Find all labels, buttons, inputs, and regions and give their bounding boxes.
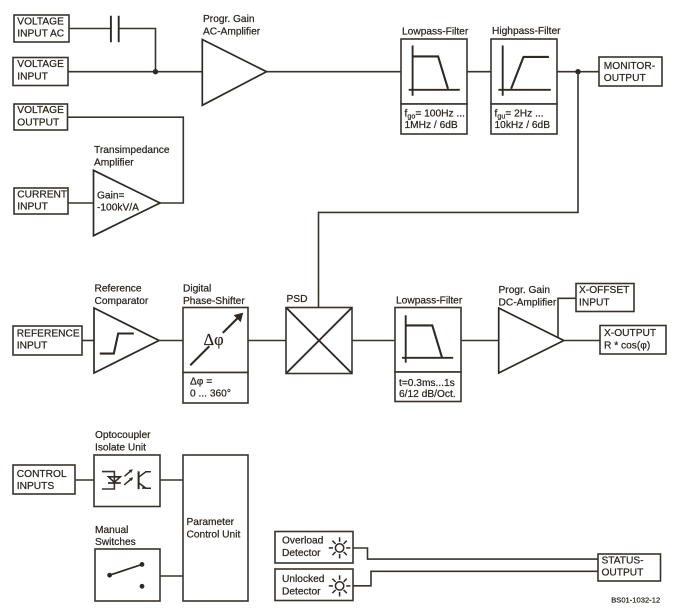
label Transimpedance Amplifier	[94, 145, 170, 169]
comparator step glyph	[100, 334, 134, 354]
wire DC amplifier to X-OUTPUT	[564, 340, 600, 342]
svg-text:t=0.3ms...1s: t=0.3ms...1s	[399, 378, 455, 389]
block lowpass filter 2	[395, 308, 461, 373]
svg-text:Reference: Reference	[95, 284, 142, 295]
wire comparator to phase shifter	[159, 340, 183, 342]
svg-text:Detector: Detector	[282, 548, 321, 559]
svg-text:MONITOR-: MONITOR-	[604, 61, 655, 72]
box CONTROL INPUTS	[13, 465, 75, 494]
svg-text:REFERENCE: REFERENCE	[17, 328, 80, 339]
svg-text:Digital: Digital	[183, 284, 211, 295]
value box phase 0...360	[183, 373, 248, 404]
wire X-OFFSET INPUT into DC amplifier	[558, 298, 576, 337]
svg-text:DC-Amplifier: DC-Amplifier	[499, 298, 557, 309]
box VOLTAGE OUTPUT	[14, 104, 68, 130]
wire highpass to monitor output	[557, 71, 599, 73]
svg-text:Transimpedance: Transimpedance	[94, 145, 170, 156]
box Unlocked Detector with lamp	[275, 569, 353, 601]
svg-text:Progr. Gain: Progr. Gain	[499, 285, 551, 296]
svg-text:Amplifier: Amplifier	[94, 157, 134, 168]
wire from capacitor down to voltage-input node	[119, 29, 156, 72]
svg-text:INPUT: INPUT	[17, 71, 48, 82]
label Progr. Gain DC-Amplifier	[499, 285, 557, 309]
svg-text:BS01-1032-12: BS01-1032-12	[611, 596, 660, 605]
svg-text:Progr. Gain: Progr. Gain	[203, 14, 255, 25]
box X-OFFSET INPUT	[576, 284, 634, 312]
wire CONTROL INPUTS to optocoupler	[75, 479, 94, 481]
svg-text:VOLTAGE: VOLTAGE	[17, 105, 64, 116]
svg-text:R * cos(φ): R * cos(φ)	[604, 341, 650, 352]
value box t=0.3ms...1s	[395, 372, 461, 402]
op-amp transimpedance amplifier triangle	[94, 170, 161, 235]
svg-text:PSD: PSD	[287, 294, 308, 305]
wire lowpass 2 to DC amplifier	[461, 340, 499, 342]
block digital phase shifter	[183, 308, 248, 373]
wire manual switches to parameter control unit	[160, 575, 183, 577]
value label Gain= -100kV/A	[97, 190, 139, 213]
svg-text:CONTROL: CONTROL	[17, 469, 67, 480]
box VOLTAGE INPUT	[13, 58, 68, 86]
svg-text:Comparator: Comparator	[95, 296, 149, 307]
box MONITOR-OUTPUT	[599, 57, 662, 86]
svg-text:OUTPUT: OUTPUT	[17, 117, 59, 128]
label Manual Switches	[95, 525, 136, 548]
svg-text:Switches: Switches	[95, 537, 136, 548]
box STATUS-OUTPUT	[598, 554, 661, 581]
svg-text:INPUTS: INPUTS	[17, 481, 55, 492]
value box f=2Hz...10kHz/6dB	[491, 104, 557, 134]
svg-text:1MHz / 6dB: 1MHz / 6dB	[405, 120, 458, 131]
label Optocoupler Isolate Unit	[95, 430, 151, 453]
wire VOLTAGE INPUT to AC amplifier	[68, 71, 202, 73]
op-amp DC amplifier triangle	[499, 308, 564, 373]
svg-text:Phase-Shifter: Phase-Shifter	[183, 296, 245, 307]
comparator triangle	[94, 308, 159, 373]
svg-text:Detector: Detector	[282, 587, 321, 598]
wire optocoupler to parameter control unit	[160, 479, 183, 481]
box VOLTAGE INPUT AC	[14, 15, 69, 42]
svg-text:INPUT: INPUT	[579, 297, 610, 308]
wire PSD to lowpass filter 2	[352, 340, 395, 342]
box Overload Detector with lamp	[275, 532, 353, 564]
svg-text:0 ... 360°: 0 ... 360°	[190, 389, 231, 400]
svg-text:INPUT AC: INPUT AC	[17, 29, 64, 40]
capacitor C (AC coupling)	[111, 16, 119, 43]
label Digital Phase-Shifter	[183, 284, 245, 308]
block highpass filter	[491, 39, 557, 104]
svg-text:INPUT: INPUT	[17, 341, 48, 352]
svg-text:Manual: Manual	[95, 525, 128, 536]
wire from VOLTAGE INPUT AC to capacitor	[69, 28, 110, 30]
op-amp AC amplifier triangle	[202, 40, 266, 106]
svg-text:Highpass-Filter: Highpass-Filter	[492, 26, 561, 37]
svg-text:10kHz / 6dB: 10kHz / 6dB	[495, 120, 551, 131]
wire lowpass to highpass	[467, 71, 491, 73]
wire REFERENCE INPUT to comparator	[82, 340, 94, 342]
svg-text:AC-Amplifier: AC-Amplifier	[203, 26, 261, 37]
block optocoupler isolate unit	[94, 455, 160, 507]
svg-text:Δφ: Δφ	[204, 330, 224, 349]
svg-text:Lowpass-Filter: Lowpass-Filter	[402, 27, 469, 38]
svg-text:6/12 dB/Oct.: 6/12 dB/Oct.	[399, 389, 456, 400]
svg-text:Unlocked: Unlocked	[282, 574, 325, 585]
svg-text:VOLTAGE: VOLTAGE	[17, 16, 64, 27]
svg-text:INPUT: INPUT	[17, 202, 48, 213]
svg-text:Δφ =: Δφ =	[190, 376, 212, 387]
box X-OUTPUT R*cos	[600, 326, 666, 355]
box REFERENCE INPUT	[13, 326, 82, 355]
svg-text:OUTPUT: OUTPUT	[602, 568, 644, 579]
wire signal branch down to PSD	[319, 72, 579, 308]
value box f=100Hz...1MHz/6dB	[401, 104, 467, 134]
junction node monitor branch	[575, 69, 580, 74]
svg-text:VOLTAGE: VOLTAGE	[17, 59, 64, 70]
svg-text:-100kV/A: -100kV/A	[97, 203, 139, 214]
svg-text:Overload: Overload	[282, 536, 324, 547]
svg-text:Parameter: Parameter	[187, 517, 235, 528]
block lowpass filter 1	[401, 39, 467, 104]
svg-text:STATUS-: STATUS-	[602, 555, 644, 566]
wire AC amplifier to lowpass filter	[267, 71, 402, 73]
svg-text:CURRENT: CURRENT	[17, 189, 67, 200]
svg-text:Gain=: Gain=	[97, 190, 125, 201]
wire CURRENT INPUT to transimpedance amp	[68, 202, 94, 204]
block manual switches	[95, 549, 160, 601]
block parameter control unit	[183, 455, 248, 601]
svg-text:Isolate Unit: Isolate Unit	[95, 442, 146, 453]
svg-text:Optocoupler: Optocoupler	[95, 430, 151, 441]
wire unlocked detector to status output	[353, 571, 598, 586]
box CURRENT INPUT	[14, 188, 68, 214]
wire VOLTAGE OUTPUT to transimpedance amp output	[68, 117, 184, 203]
wire overload detector to status output	[353, 548, 598, 559]
label Reference Comparator	[95, 284, 149, 308]
svg-text:X-OUTPUT: X-OUTPUT	[604, 328, 656, 339]
svg-text:Lowpass-Filter: Lowpass-Filter	[396, 295, 463, 306]
label Progr. Gain AC-Amplifier	[203, 14, 261, 38]
svg-text:Control Unit: Control Unit	[187, 529, 241, 540]
block PSD mixer	[286, 308, 352, 374]
junction node at capacitor / voltage input	[153, 69, 158, 74]
wire phase shifter to PSD	[248, 340, 286, 342]
svg-text:OUTPUT: OUTPUT	[604, 73, 646, 84]
svg-text:X-OFFSET: X-OFFSET	[579, 285, 629, 296]
